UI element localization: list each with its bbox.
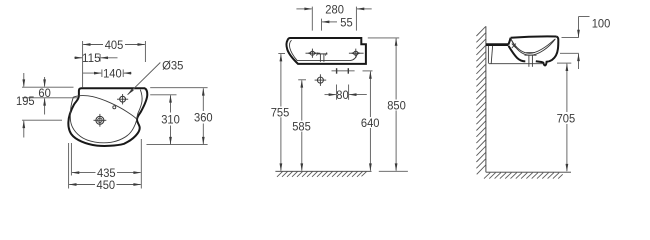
drain crosshair [94,114,107,127]
dim 405 [82,41,84,87]
dim 140 [83,72,102,74]
dim 80 [336,85,338,100]
dim 310 [170,95,172,112]
basin inner line front view [290,40,358,60]
svg-text:640: 640 [361,116,380,130]
svg-text:80: 80 [336,88,349,102]
dim 60 extension lines [22,86,74,88]
wall hatching [476,27,485,175]
svg-text:140: 140 [103,67,122,81]
svg-text:Ø35: Ø35 [162,58,183,72]
bowl inner arc [511,39,556,56]
svg-text:100: 100 [592,16,611,30]
x mark in bowl [512,44,516,48]
dim 850 [368,37,399,39]
lower crosshair front view [315,74,327,86]
basin inner rim (bowl edge) top view [70,96,137,143]
dim 115 [74,57,82,59]
dim 55 [321,19,323,31]
svg-text:405: 405 [105,38,124,52]
wall line [485,26,487,172]
svg-text:195: 195 [16,94,35,108]
svg-text:450: 450 [97,178,116,192]
bowl waterline arc [511,39,555,53]
drain fitting side view [525,53,537,67]
wing inner edge line [137,90,142,120]
right fixing hole symbol [349,49,364,58]
left fixing hole symbol [306,49,321,58]
svg-text:850: 850 [387,98,406,112]
svg-text:755: 755 [271,105,290,119]
basin underside [509,46,526,62]
dim 450 [68,143,70,189]
dim 280 [311,7,313,31]
svg-text:60: 60 [38,86,51,100]
overflow/drain fitting front view [317,52,328,61]
bracket legs [487,46,489,64]
mounting bracket bar [486,43,509,46]
floor hatching front view [277,172,367,177]
svg-text:705: 705 [557,111,576,125]
svg-text:360: 360 [194,111,213,125]
basin outline top view [68,88,147,146]
svg-text:310: 310 [161,112,180,126]
dim 705 [557,62,571,64]
dim 100 extension lines [562,37,579,39]
svg-text:585: 585 [292,120,311,134]
faucet hole crosshair [117,94,128,104]
floor hatching side view [484,173,563,179]
svg-text:115: 115 [82,51,101,65]
basin front right profile with foot [536,37,559,66]
basin rim top side view [511,36,557,37]
svg-text:55: 55 [340,15,353,29]
floor line front view [275,170,371,172]
dim 310/360 extension lines [150,87,207,89]
dim 585 [298,79,306,81]
dim 435 [70,143,72,176]
svg-text:280: 280 [325,2,344,16]
floor line side view [486,171,571,173]
dim 60 [44,77,46,87]
bolt holes line [332,68,355,74]
basin outline front view [287,38,366,64]
dim 195 [23,73,25,87]
dim 755 [278,53,285,55]
dim 100 [578,17,580,38]
dim 360 [202,88,204,111]
basin bottom thin line side view [489,63,543,65]
overflow small circle [113,106,116,109]
basin back rise [508,38,510,45]
dim 640 [363,70,373,72]
